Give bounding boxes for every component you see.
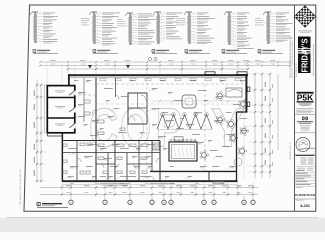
consultant name/address xyxy=(297,121,313,130)
walkway below bottom wall xyxy=(62,183,237,184)
left exterior wall upper xyxy=(68,74,70,86)
detail title 3 xyxy=(152,50,177,54)
title block side text xyxy=(295,43,315,78)
svg-text:C: C xyxy=(89,97,118,159)
round tables with chairs xyxy=(200,92,249,160)
svg-text:FRIDAY’S: FRIDAY’S xyxy=(300,38,309,73)
svg-text:HIGHWAY 142 & I-35: HIGHWAY 142 & I-35 xyxy=(289,142,292,160)
P5K fine print xyxy=(296,108,313,113)
svg-text:Y: Y xyxy=(211,97,245,159)
svg-text:Restaurant Development Worldwi: Restaurant Development Worldwide xyxy=(312,43,315,76)
right exterior wall xyxy=(237,74,250,180)
wall-line fixtures below top wall xyxy=(100,79,241,81)
project description vertical text xyxy=(289,36,294,160)
interior dimension line xyxy=(152,100,245,102)
divider xyxy=(295,153,316,155)
svg-text:A-101: A-101 xyxy=(300,204,310,208)
detail title 4 xyxy=(185,50,210,54)
wall detail section 5 xyxy=(176,12,215,44)
wall detail section 7 xyxy=(255,12,293,44)
pantry rooms xyxy=(128,93,147,124)
title block left border xyxy=(294,5,296,211)
left margin registration text xyxy=(19,169,22,205)
svg-text:FLOOR PLAN: FLOOR PLAN xyxy=(295,193,315,197)
divider xyxy=(295,132,316,134)
svg-text:P5K: P5K xyxy=(297,93,314,102)
walk-in cooler/freezer block xyxy=(47,86,75,133)
column grid bubbles xyxy=(69,196,255,205)
sheet number xyxy=(296,200,310,208)
wall detail section 1 xyxy=(30,12,58,43)
plan annotations xyxy=(65,80,247,179)
svg-text:P5K 980162 FLOOR PLAN 04/21/98: P5K 980162 FLOOR PLAN 04/21/98 xyxy=(19,169,22,205)
detail title 6 xyxy=(258,50,283,54)
divider xyxy=(295,113,316,115)
dashed grid lines xyxy=(68,77,245,171)
drawing title xyxy=(37,203,68,208)
wall detail section 2 xyxy=(81,12,120,45)
svg-text:TGI FRIDAYS INC.: TGI FRIDAYS INC. xyxy=(295,62,298,78)
left dimension strings xyxy=(34,80,47,182)
project info rows xyxy=(295,170,316,186)
sheet border frame xyxy=(24,5,316,211)
P5K address lines xyxy=(299,104,312,106)
booth rounded rect xyxy=(182,95,196,108)
building top exterior wall xyxy=(68,74,248,77)
P5K design firm logo xyxy=(297,92,314,103)
wall detail section 4 xyxy=(153,12,182,44)
vestibule stair hatch xyxy=(152,142,160,150)
COPY watermark xyxy=(89,97,245,159)
top dimension strings xyxy=(39,57,291,85)
bottom scan shadow band xyxy=(0,218,325,232)
door swings xyxy=(77,95,160,180)
kitchen equipment xyxy=(63,100,148,174)
entry steps xyxy=(100,182,224,186)
top wall pilasters xyxy=(205,72,247,75)
zigzag booth seating xyxy=(157,112,212,129)
detail title 1 xyxy=(33,50,58,54)
right alcove detail xyxy=(226,88,242,166)
bar counter xyxy=(169,137,197,161)
wall detail section 3 xyxy=(117,13,156,45)
divider xyxy=(295,198,316,200)
interior partition walls xyxy=(62,78,160,182)
svg-text:ARDMORE COMMERCIAL DEVELOPMENT: ARDMORE COMMERCIAL DEVELOPMENT xyxy=(291,39,294,78)
detail title 5 xyxy=(222,50,247,54)
cooler lower connector xyxy=(47,133,61,136)
left exterior wall lower xyxy=(62,133,64,182)
bottom dimension strings xyxy=(40,182,258,196)
svg-text:O: O xyxy=(120,97,151,159)
bottom exterior wall xyxy=(62,171,238,182)
consultant logo xyxy=(302,117,308,121)
right dimension strings xyxy=(247,73,278,178)
Fridays diamond checker logo xyxy=(294,6,315,27)
FRIDAYS vertical logo xyxy=(298,37,311,74)
wall detail section 6 xyxy=(224,12,254,49)
sheet title FLOOR PLAN xyxy=(295,187,315,197)
text under diamond xyxy=(298,31,312,33)
revisions table xyxy=(295,155,316,171)
detail title 2 xyxy=(93,50,118,54)
architect seal xyxy=(296,138,315,152)
